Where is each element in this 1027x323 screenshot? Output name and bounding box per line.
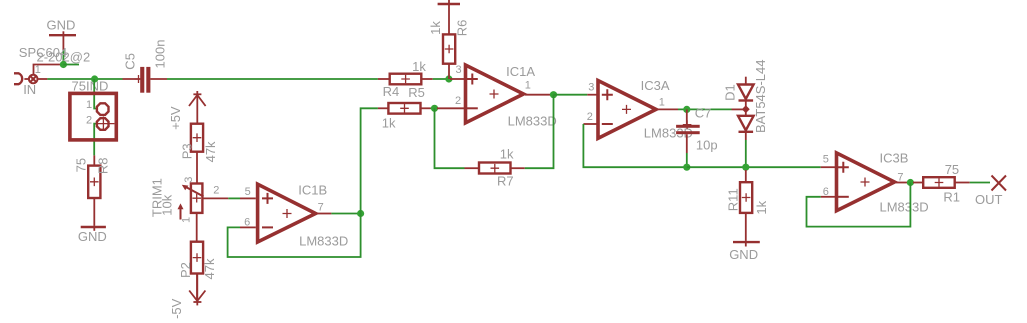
svg-text:GND: GND [47,18,76,33]
svg-text:10k: 10k [159,194,174,215]
node junction R4/R7/pin2 [431,105,438,112]
connector X1 SPC604 labels [19,45,90,65]
wire IC1B output to junction [331,213,360,215]
wire IC3A out pin stub to D1 [732,108,746,110]
svg-text:3: 3 [588,82,594,94]
wire bottom rail to IC3B pin5 [687,166,821,168]
svg-text:47k: 47k [202,258,217,279]
svg-text:R8: R8 [96,157,111,174]
resistor R11 [725,170,769,241]
svg-text:2: 2 [213,185,219,197]
svg-text:P2: P2 [178,262,193,278]
svg-text:3: 3 [456,64,462,76]
wire pin3 stub [450,78,466,80]
svg-text:LM833D: LM833D [508,114,557,129]
wire stub right of junction [63,64,79,66]
svg-text:1: 1 [659,97,665,109]
svg-text:OUT: OUT [975,192,1003,207]
wire D1 bottom to rail [745,140,747,167]
svg-text:1k: 1k [500,147,514,162]
wire R7 feedback left leg [435,108,465,168]
svg-text:1: 1 [181,217,193,223]
wire 75IND pin1 [94,79,96,109]
svg-text:IC1A: IC1A [506,64,535,79]
node junction at GND/pin2 [60,61,67,68]
svg-text:100n: 100n [153,40,168,69]
ground GND below R11 [729,241,760,262]
svg-text:R5: R5 [408,85,425,100]
svg-text:10p: 10p [696,138,718,153]
resistor R5 [378,59,433,100]
inductor 75IND box [70,93,116,139]
pin OUT cross [975,176,1006,208]
wire C5 to R5 [167,78,378,80]
svg-text:1k: 1k [428,21,443,35]
wire 75IND pin2 to R8 [94,124,96,156]
svg-text:1k: 1k [754,200,769,214]
svg-text:1k: 1k [382,116,396,131]
wire jack pin1 stub [38,78,48,80]
wire IC3A feedback [583,124,686,167]
node junction IC1A out [550,91,557,98]
svg-text:LM833D: LM833D [299,233,348,248]
svg-text:2: 2 [455,95,461,107]
svg-text:C7: C7 [695,105,712,120]
svg-text:47k: 47k [203,141,218,162]
node junction R5/R6/pin3 [445,75,452,82]
diode D1 dual BAT54S [722,60,768,140]
svg-text:75IND: 75IND [72,78,109,93]
op-amp IC3B [821,151,929,215]
svg-text:6: 6 [823,186,829,198]
op-amp IC1A [455,64,557,129]
svg-text:75: 75 [74,158,89,172]
resistor R4 [378,84,431,131]
op-amp IC3A [583,78,693,141]
svg-text:R1: R1 [943,190,960,205]
svg-text:BAT54S-L44: BAT54S-L44 [753,60,768,133]
svg-text:+5V: +5V [168,106,183,130]
wire IC1A out to junction [551,94,554,96]
potentiometer P2 [178,242,217,299]
svg-text:IC1B: IC1B [298,182,327,197]
svg-text:1: 1 [35,64,41,76]
resistor R1 [913,162,970,205]
svg-text:1: 1 [525,79,531,91]
svg-text:R11: R11 [725,188,740,211]
wire TRIM1 wiper to IC1B pin5 [228,197,240,199]
op-amp IC1B [240,182,348,248]
svg-text:3: 3 [183,177,195,183]
node junction R11 top [742,164,749,171]
svg-text:R6: R6 [454,20,469,37]
wire IC1B feedback loop [228,214,361,258]
svg-text:7: 7 [318,201,324,213]
ground GND below R8 [78,226,107,244]
svg-text:7: 7 [897,171,903,183]
supply +5V [168,91,206,130]
connector X1 jack symbol [14,64,41,97]
svg-text:R7: R7 [497,174,514,189]
wire IC3B feedback loop [807,183,911,227]
ground bar above R6 [438,0,460,34]
wire main net IN to C5 [47,78,122,80]
svg-text:5: 5 [245,186,251,198]
capacitor C7 [676,105,718,167]
ground GND top-left [47,18,77,51]
wire R4 to IC1A pin2 node [431,107,435,109]
resistor R6 [428,20,470,79]
node junction C7 bottom [683,164,690,171]
svg-text:-5V: -5V [169,298,184,319]
wire R5 to pin3 node [433,78,449,80]
wire riser IC1B out to R4 [361,108,378,213]
wire jack pin2 to GND node [34,65,61,75]
svg-text:GND: GND [78,229,107,244]
trimmer TRIM1 [150,177,229,242]
svg-text:5: 5 [823,154,829,166]
supply -5V [169,274,205,319]
svg-text:R4: R4 [383,84,400,99]
resistor R8 [74,155,111,225]
wire GND stem to junction [62,50,64,65]
node junction IC3B out [907,179,914,186]
svg-text:LM833D: LM833D [880,199,929,214]
svg-text:2: 2 [86,114,92,126]
wire IC3B out to junction [907,182,910,184]
svg-text:C5: C5 [123,53,138,70]
resistor R7 [465,147,525,189]
node junction 75IND tap [91,75,98,82]
svg-text:IN: IN [23,82,36,97]
svg-text:IC3B: IC3B [880,151,909,166]
node junction C7 top [683,106,690,113]
wire IC3A out [678,108,732,110]
wire IC1A out to IC3A pin3 [554,94,588,96]
svg-text:1: 1 [86,99,92,111]
svg-text:GND: GND [729,247,758,262]
svg-text:2: 2 [587,111,593,123]
svg-text:D1: D1 [722,84,737,101]
wire pin2 stub [437,107,466,109]
svg-text:P3: P3 [180,143,195,159]
svg-text:75: 75 [945,162,959,177]
wire R7 feedback right leg [525,95,554,169]
wire R1 to OUT [970,182,990,184]
svg-text:IC3A: IC3A [641,78,670,93]
svg-text:1k: 1k [412,59,426,74]
potentiometer P3 [180,124,218,184]
capacitor C5 [123,40,168,93]
node junction IC1B output [357,210,364,217]
